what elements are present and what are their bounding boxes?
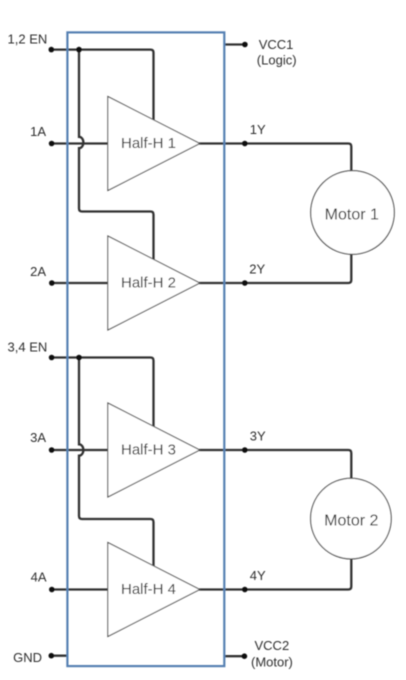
op-amp buffer Half-H 2: [108, 236, 200, 330]
svg-text:Motor 2: Motor 2: [324, 513, 378, 530]
node 4A pin dot: [49, 587, 55, 593]
node 1A pin dot: [49, 141, 55, 147]
wire 3,4EN horizontal + drop to Half-H 3 enable: [51, 358, 154, 427]
motor M1 circle: [311, 171, 395, 255]
node 1Y pin dot: [242, 141, 248, 147]
svg-text:4Y: 4Y: [250, 568, 266, 583]
node EN2 junction dot: [76, 355, 82, 361]
svg-text:Half-H 2: Half-H 2: [121, 275, 176, 292]
node 2Y pin dot: [242, 280, 248, 286]
node 3Y pin dot: [242, 447, 248, 453]
svg-text:4A: 4A: [31, 569, 47, 584]
wire 1A input: [51, 142, 108, 144]
wire 2A input: [51, 282, 108, 284]
wire EN2 bus with hop over 3A and turn to Half-H 4 enable: [79, 358, 154, 567]
svg-text:GND: GND: [13, 650, 42, 665]
svg-text:1Y: 1Y: [250, 122, 266, 137]
svg-text:Half-H 3: Half-H 3: [121, 442, 176, 459]
svg-text:3Y: 3Y: [250, 429, 266, 444]
wire 1Y output to Motor 1 top: [199, 144, 351, 172]
wire 3Y output to Motor 2 top: [199, 450, 351, 479]
svg-text:(Logic): (Logic): [257, 53, 297, 68]
svg-text:(Motor): (Motor): [251, 655, 293, 670]
node EN1 junction dot: [76, 47, 82, 53]
svg-text:1,2 EN: 1,2 EN: [8, 31, 48, 46]
svg-text:VCC1: VCC1: [259, 37, 294, 52]
wire 1,2EN horizontal + drop to Half-H 1 enable: [51, 50, 154, 121]
node 3,4EN pin dot: [49, 355, 55, 361]
wire 4A input: [51, 588, 108, 590]
node 2A pin dot: [49, 280, 55, 286]
motor M2 circle: [311, 478, 392, 559]
wire VCC2 stub: [224, 655, 244, 657]
svg-text:Motor 1: Motor 1: [325, 207, 379, 224]
wire EN1 bus with hop over 1A and turn to Half-H 2 enable: [79, 50, 154, 261]
node VCC1 pin dot: [242, 42, 248, 48]
svg-text:VCC2: VCC2: [255, 638, 290, 653]
svg-text:2A: 2A: [30, 264, 46, 279]
svg-text:2Y: 2Y: [249, 262, 265, 277]
svg-text:3,4 EN: 3,4 EN: [8, 339, 48, 354]
op-amp buffer Half-H 3: [108, 403, 200, 497]
op-amp buffer Half-H 1: [108, 97, 200, 191]
wire 4Y output to Motor 2 bottom: [199, 559, 351, 590]
wire GND stub: [51, 655, 68, 657]
node VCC2 pin dot: [242, 653, 248, 659]
op-amp buffer Half-H 4: [108, 543, 200, 637]
node 3A pin dot: [49, 447, 55, 453]
IC boundary box: [67, 32, 224, 666]
node GND pin dot: [49, 653, 55, 659]
svg-text:3A: 3A: [30, 430, 46, 445]
node 1,2EN pin dot: [49, 47, 55, 53]
wire 2Y output to Motor 1 bottom: [199, 254, 351, 283]
wire VCC1 stub: [224, 43, 245, 45]
svg-text:Half-H 1: Half-H 1: [121, 135, 176, 152]
svg-text:1A: 1A: [30, 124, 46, 139]
wire 3A input: [51, 449, 108, 451]
node 4Y pin dot: [242, 587, 248, 593]
svg-text:Half-H 4: Half-H 4: [121, 581, 176, 598]
